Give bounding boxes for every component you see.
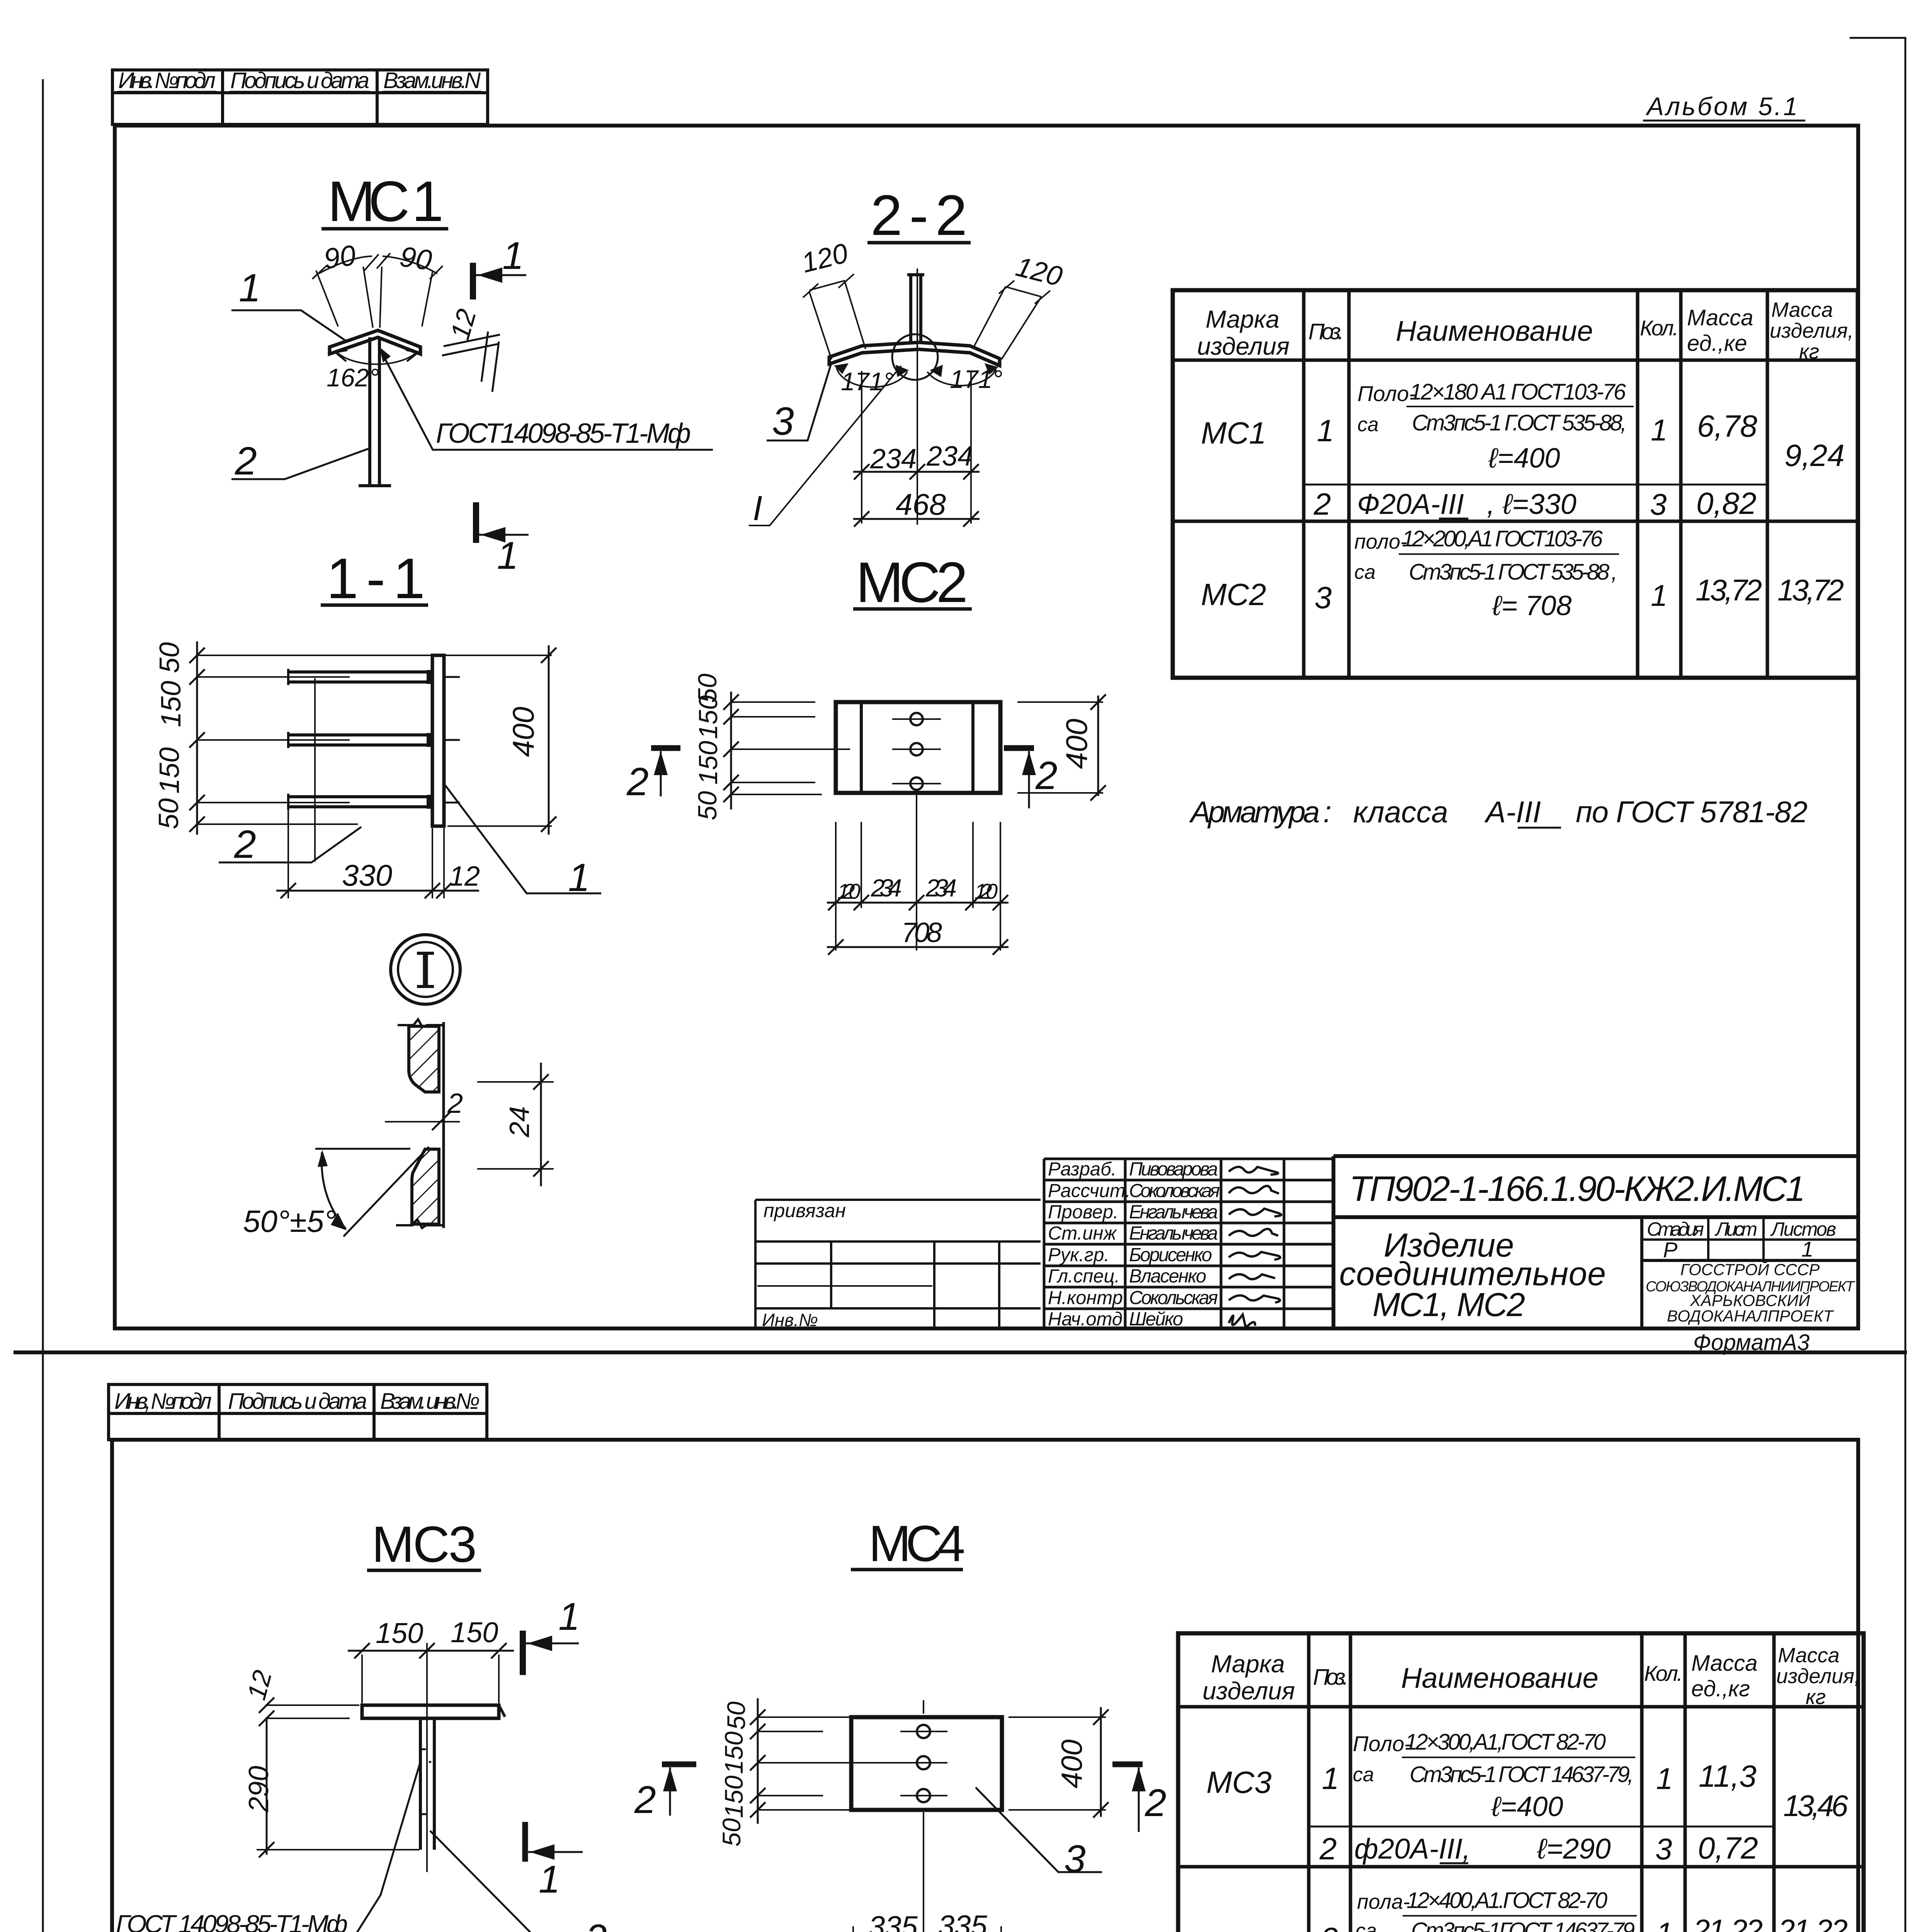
- svg-text:Стадия: Стадия: [1647, 1218, 1704, 1240]
- svg-text:1-1: 1-1: [327, 547, 425, 611]
- svg-text:12×180 А1 ГОСТ103-76: 12×180 А1 ГОСТ103-76: [1410, 379, 1626, 405]
- svg-text:ℓ= 708: ℓ= 708: [1492, 590, 1571, 621]
- svg-text:са: са: [1357, 413, 1379, 436]
- svg-text:50: 50: [153, 798, 184, 829]
- svg-text:1: 1: [1651, 413, 1667, 447]
- svg-text:13,72: 13,72: [1696, 573, 1762, 607]
- svg-text:Арматура :: Арматура :: [1189, 795, 1332, 829]
- svg-text:2: 2: [1145, 1781, 1167, 1825]
- svg-text:Пивоварова: Пивоварова: [1129, 1159, 1218, 1180]
- svg-text:11,3: 11,3: [1699, 1759, 1757, 1793]
- svg-text:9,24: 9,24: [1784, 438, 1845, 473]
- svg-text:90: 90: [322, 239, 358, 275]
- svg-text:са: са: [1355, 1920, 1377, 1932]
- svg-text:Р: Р: [1663, 1238, 1677, 1262]
- svg-text:Кол.: Кол.: [1644, 1661, 1683, 1685]
- svg-text:150: 150: [156, 681, 187, 727]
- svg-text:МС1, МС2: МС1, МС2: [1372, 1286, 1525, 1323]
- svg-text:Ст3пс5-1ГОСТ 14637-79,: Ст3пс5-1ГОСТ 14637-79,: [1411, 1918, 1639, 1932]
- svg-text:1: 1: [239, 266, 261, 310]
- svg-text:ГОССТРОЙ СССР: ГОССТРОЙ СССР: [1680, 1260, 1820, 1279]
- svg-text:ГОСТ14098-85-Т1-Мф: ГОСТ14098-85-Т1-Мф: [436, 418, 691, 449]
- svg-text:2: 2: [626, 760, 649, 804]
- svg-text:708: 708: [901, 917, 942, 948]
- svg-text:Поз.: Поз.: [1308, 319, 1344, 344]
- svg-text:400: 400: [1060, 719, 1094, 769]
- svg-text:Ст3пс5-1 Г.ОСТ 535-88,: Ст3пс5-1 Г.ОСТ 535-88,: [1412, 410, 1627, 435]
- svg-text:150: 150: [154, 747, 185, 794]
- svg-text:335: 335: [938, 1910, 988, 1932]
- svg-text:2: 2: [1313, 487, 1331, 521]
- svg-text:ℓ=400: ℓ=400: [1488, 443, 1560, 474]
- svg-text:МС 1: МС 1: [328, 170, 444, 233]
- svg-text:Наименование: Наименование: [1396, 315, 1593, 347]
- svg-text:Шейко: Шейко: [1129, 1309, 1183, 1330]
- svg-text:I: I: [753, 489, 762, 528]
- svg-text:МС3: МС3: [1206, 1765, 1272, 1799]
- svg-text:0,72: 0,72: [1698, 1831, 1758, 1865]
- svg-text:162°: 162°: [327, 363, 379, 392]
- svg-text:класса: класса: [1353, 795, 1448, 829]
- svg-text:1: 1: [1656, 1916, 1673, 1932]
- svg-text:ФорматА3: ФорматА3: [1693, 1330, 1810, 1355]
- svg-text:Поз.: Поз.: [1313, 1665, 1349, 1690]
- svg-text:120: 120: [975, 879, 998, 903]
- svg-text:13,46: 13,46: [1783, 1789, 1849, 1823]
- svg-text:12×300,А1,ГОСТ 82-70: 12×300,А1,ГОСТ 82-70: [1405, 1730, 1606, 1755]
- svg-text:ℓ=400: ℓ=400: [1491, 1791, 1563, 1822]
- svg-text:150: 150: [376, 1617, 423, 1649]
- svg-text:0,82: 0,82: [1696, 486, 1757, 520]
- svg-text:50: 50: [722, 1701, 750, 1730]
- svg-text:Ст3пс5-1 ГОСТ 535-88 ,: Ст3пс5-1 ГОСТ 535-88 ,: [1409, 560, 1617, 585]
- svg-text:150: 150: [719, 1731, 748, 1774]
- svg-text:ТП902-1-166.1.90-КЖ2.И.МС1: ТП902-1-166.1.90-КЖ2.И.МС1: [1349, 1169, 1805, 1209]
- svg-text:Ст3пс5-1 ГОСТ 14637-79,: Ст3пс5-1 ГОСТ 14637-79,: [1410, 1762, 1634, 1787]
- svg-text:Енгалычева: Енгалычева: [1129, 1202, 1218, 1223]
- svg-text:171°: 171°: [841, 367, 894, 396]
- svg-text:ℓ=290: ℓ=290: [1537, 1833, 1611, 1865]
- svg-text:Масса: Масса: [1691, 1651, 1757, 1676]
- svg-text:Альбом 5.1: Альбом 5.1: [1645, 92, 1798, 121]
- svg-text:234: 234: [870, 444, 917, 474]
- svg-text:Подпись и дата: Подпись и дата: [228, 1389, 367, 1414]
- svg-text:330: 330: [342, 858, 392, 892]
- svg-text:13,72: 13,72: [1777, 573, 1844, 607]
- svg-text:МС2: МС2: [856, 551, 968, 614]
- svg-text:Нач.отд: Нач.отд: [1048, 1309, 1122, 1330]
- svg-text:Инв. №подл: Инв. №подл: [118, 68, 216, 93]
- svg-text:400: 400: [1056, 1740, 1088, 1789]
- svg-text:234: 234: [925, 874, 957, 902]
- svg-text:2: 2: [1035, 753, 1058, 798]
- svg-text:150: 150: [719, 1776, 748, 1818]
- svg-text:2: 2: [1319, 1832, 1337, 1866]
- svg-text:по ГОСТ 5781-82: по ГОСТ 5781-82: [1576, 795, 1808, 829]
- svg-text:Масса: Масса: [1778, 1644, 1840, 1667]
- svg-text:Поло-: Поло-: [1353, 1731, 1412, 1756]
- svg-text:2-2: 2-2: [871, 184, 967, 247]
- svg-text:Лист: Лист: [1714, 1218, 1757, 1240]
- svg-text:1: 1: [1656, 1762, 1673, 1796]
- svg-text:ф20А-III,: ф20А-III,: [1354, 1833, 1470, 1865]
- svg-text:234: 234: [926, 441, 973, 472]
- svg-text:468: 468: [896, 487, 946, 521]
- svg-text:Масса: Масса: [1687, 305, 1753, 330]
- svg-text:Взам.инв.N: Взам.инв.N: [383, 68, 481, 93]
- svg-text:12×400,А1.ГОСТ 82-70: 12×400,А1.ГОСТ 82-70: [1406, 1888, 1607, 1913]
- svg-text:Ст.инж: Ст.инж: [1048, 1223, 1117, 1244]
- svg-text:поло-: поло-: [1354, 530, 1407, 553]
- svg-text:привязан: привязан: [764, 1200, 846, 1221]
- svg-text:1: 1: [558, 1595, 580, 1638]
- svg-text:150: 150: [451, 1616, 498, 1648]
- svg-text:ВОДОКАНАЛПРОЕКТ: ВОДОКАНАЛПРОЕКТ: [1667, 1307, 1834, 1325]
- svg-text:24: 24: [504, 1106, 535, 1138]
- svg-text:изделия: изделия: [1197, 332, 1289, 360]
- svg-text:ед.,кг: ед.,кг: [1691, 1676, 1750, 1701]
- svg-text:Инв.№: Инв.№: [762, 1310, 818, 1330]
- svg-text:335: 335: [869, 1910, 918, 1932]
- svg-text:120: 120: [837, 879, 861, 903]
- svg-text:МС1: МС1: [1201, 416, 1266, 450]
- svg-text:са: са: [1354, 561, 1376, 583]
- svg-text:Марка: Марка: [1211, 1650, 1285, 1678]
- svg-text:1: 1: [539, 1858, 560, 1901]
- svg-text:234: 234: [871, 874, 902, 902]
- svg-text:А-III: А-III: [1484, 795, 1541, 829]
- svg-text:са: са: [1353, 1764, 1374, 1786]
- svg-text:3: 3: [772, 399, 794, 443]
- svg-text:Ф20А-III: Ф20А-III: [1357, 488, 1464, 520]
- svg-text:изделия,: изделия,: [1770, 319, 1854, 342]
- svg-text:1: 1: [1651, 578, 1667, 612]
- svg-text:кг: кг: [1799, 340, 1819, 363]
- svg-text:6,78: 6,78: [1697, 409, 1757, 443]
- svg-text:400: 400: [506, 707, 540, 757]
- svg-text:изделия,: изделия,: [1776, 1665, 1860, 1688]
- svg-text:Взам. инв.№: Взам. инв.№: [380, 1389, 480, 1414]
- svg-text:21,22: 21,22: [1778, 1913, 1848, 1932]
- svg-text:Гл.спец.: Гл.спец.: [1048, 1266, 1120, 1287]
- svg-text:Наименование: Наименование: [1401, 1662, 1599, 1694]
- svg-text:1: 1: [1801, 1237, 1813, 1261]
- svg-text:кг: кг: [1806, 1685, 1826, 1709]
- svg-text:Марка: Марка: [1206, 305, 1279, 333]
- svg-text:2: 2: [235, 439, 257, 483]
- svg-text:150: 150: [694, 695, 723, 739]
- svg-text:2: 2: [447, 1088, 463, 1119]
- svg-text:1: 1: [497, 534, 519, 577]
- svg-text:3: 3: [1321, 1921, 1338, 1932]
- svg-text:Борисенко: Борисенко: [1129, 1245, 1212, 1265]
- svg-text:Кол.: Кол.: [1640, 316, 1679, 340]
- svg-text:МС3: МС3: [372, 1516, 477, 1573]
- svg-text:1: 1: [1317, 413, 1334, 448]
- svg-text:МС4: МС4: [869, 1515, 965, 1572]
- svg-text:150: 150: [694, 741, 723, 785]
- svg-text:пола-: пола-: [1357, 1890, 1410, 1913]
- svg-text:Рассчит.: Рассчит.: [1048, 1180, 1131, 1201]
- svg-text:ед.,ке: ед.,ке: [1687, 331, 1747, 356]
- svg-text:Масса: Масса: [1771, 298, 1833, 321]
- svg-text:Власенко: Власенко: [1129, 1266, 1206, 1287]
- svg-text:Енгалычева: Енгалычева: [1129, 1223, 1218, 1244]
- svg-text:3: 3: [1650, 487, 1667, 521]
- svg-text:Сокольская: Сокольская: [1129, 1287, 1218, 1308]
- svg-text:Разраб.: Разраб.: [1048, 1159, 1116, 1180]
- svg-text:12×200,А1 ГОСТ103-76: 12×200,А1 ГОСТ103-76: [1402, 526, 1603, 551]
- svg-text:2: 2: [234, 822, 256, 866]
- svg-text:21,22: 21,22: [1693, 1913, 1763, 1932]
- svg-text:3: 3: [1655, 1832, 1672, 1866]
- svg-text:, ℓ=330: , ℓ=330: [1487, 488, 1577, 520]
- svg-text:МС2: МС2: [1201, 577, 1266, 612]
- svg-text:Поло-: Поло-: [1357, 381, 1416, 406]
- svg-text:3: 3: [1315, 580, 1332, 615]
- svg-text:Рук.гр.: Рук.гр.: [1048, 1245, 1109, 1265]
- svg-text:1: 1: [502, 234, 524, 277]
- svg-text:1: 1: [1322, 1761, 1339, 1796]
- svg-text:Провер.: Провер.: [1048, 1202, 1119, 1223]
- svg-text:Н.контр: Н.контр: [1048, 1287, 1123, 1308]
- svg-text:Инв, №подл: Инв, №подл: [114, 1389, 212, 1414]
- svg-text:2: 2: [634, 1778, 656, 1821]
- svg-text:изделия: изделия: [1202, 1677, 1295, 1705]
- svg-text:Соколовская: Соколовская: [1129, 1180, 1220, 1201]
- svg-text:Подпись и дата: Подпись и дата: [230, 68, 369, 93]
- svg-text:171°: 171°: [950, 365, 1003, 393]
- svg-text:3: 3: [1064, 1837, 1086, 1881]
- svg-text:290: 290: [243, 1766, 274, 1813]
- svg-text:ГОСТ 14098-85-Т1-Мф: ГОСТ 14098-85-Т1-Мф: [116, 1910, 348, 1932]
- svg-text:50: 50: [693, 791, 722, 820]
- svg-text:50°±5°: 50°±5°: [243, 1204, 336, 1238]
- svg-text:50: 50: [717, 1818, 746, 1847]
- svg-text:50: 50: [154, 642, 185, 673]
- svg-text:2: 2: [585, 1917, 607, 1932]
- svg-text:90: 90: [398, 240, 434, 277]
- svg-text:МС4: МС4: [1206, 1930, 1272, 1932]
- svg-text:12: 12: [449, 861, 480, 892]
